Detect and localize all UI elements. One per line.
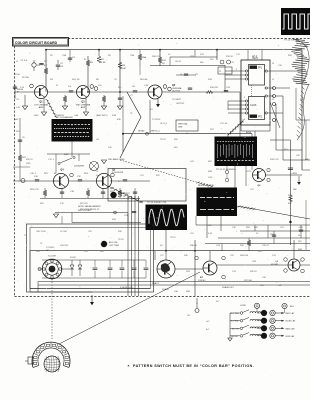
svg-text:PHASE DET: PHASE DET — [222, 286, 235, 289]
svg-text:R-Y 180: R-Y 180 — [231, 313, 240, 315]
svg-text:OSC COIL: OSC COIL — [36, 231, 47, 233]
svg-text:C16 .1: C16 .1 — [30, 173, 37, 175]
svg-text:MAG LAT: MAG LAT — [286, 327, 296, 330]
svg-text:3.58 KEYER: 3.58 KEYER — [112, 172, 124, 174]
svg-text:TP-10: TP-10 — [14, 74, 21, 76]
svg-text:TINT: TINT — [300, 99, 305, 101]
svg-text:R30 1K: R30 1K — [190, 245, 198, 247]
svg-text:FF1: FF1 — [258, 68, 263, 70]
svg-text:R20 1K: R20 1K — [26, 159, 33, 161]
svg-text:AMP: AMP — [39, 106, 44, 109]
svg-text:4.7K: 4.7K — [208, 233, 213, 235]
svg-text:PHASE: PHASE — [162, 288, 169, 291]
svg-text:R3A: R3A — [56, 114, 61, 117]
svg-text:L9 OSC: L9 OSC — [60, 231, 68, 233]
svg-text:AMP TP: AMP TP — [118, 195, 126, 198]
svg-text:R23 4.7K: R23 4.7K — [30, 189, 39, 191]
svg-text:+24V: +24V — [298, 227, 304, 229]
svg-text:LINE: LINE — [178, 127, 183, 129]
svg-text:✶: ✶ — [127, 364, 130, 368]
svg-text:R19 2.7K: R19 2.7K — [270, 159, 279, 161]
svg-text:ADJ 3.58: ADJ 3.58 — [109, 241, 118, 244]
svg-text:Q4 BURST: Q4 BURST — [74, 166, 85, 168]
svg-text:R4 1.2K: R4 1.2K — [72, 79, 80, 81]
svg-text:C17 .05: C17 .05 — [220, 123, 228, 125]
svg-text:R34 10K: R34 10K — [240, 255, 249, 257]
svg-text:COLOR CIRCUIT BOARD: COLOR CIRCUIT BOARD — [15, 41, 58, 45]
svg-text:5.6K: 5.6K — [101, 62, 106, 64]
svg-text:LINE DL-1: LINE DL-1 — [150, 131, 161, 133]
svg-text:(2W): (2W) — [26, 163, 31, 165]
svg-text:TO PIN 8: TO PIN 8 — [152, 119, 161, 121]
svg-text:554-9: 554-9 — [252, 58, 258, 60]
svg-text:(SEE TEXT): (SEE TEXT) — [96, 115, 108, 117]
svg-text:+12V: +12V — [246, 171, 252, 173]
svg-text:TP-12: TP-12 — [160, 139, 167, 141]
svg-text:R9A: R9A — [142, 56, 147, 59]
svg-text:C2A: C2A — [62, 54, 67, 57]
svg-text:TP-12: TP-12 — [226, 149, 232, 151]
svg-text:RED LAT: RED LAT — [286, 312, 296, 315]
svg-text:AGC: AGC — [14, 118, 19, 121]
svg-text:+265V: +265V — [291, 173, 298, 175]
svg-text:GND: GND — [34, 115, 39, 117]
svg-text:C1 5.6: C1 5.6 — [21, 60, 28, 62]
svg-text:R27 470: R27 470 — [80, 203, 88, 205]
svg-text:R16 470: R16 470 — [210, 87, 219, 89]
svg-text:OUTPUT: OUTPUT — [176, 103, 185, 105]
svg-text:BLNK: BLNK — [246, 132, 252, 134]
svg-text:TP-15: TP-15 — [118, 239, 125, 241]
svg-text:C8 .01: C8 .01 — [175, 61, 182, 63]
svg-text:10K: 10K — [122, 68, 126, 70]
svg-text:C5A: C5A — [130, 54, 135, 57]
svg-text:OSC TRIM: OSC TRIM — [109, 245, 119, 247]
svg-text:C7A: C7A — [144, 84, 149, 87]
svg-text:B-Y 90: B-Y 90 — [232, 328, 239, 330]
svg-text:GLSS: GLSS — [250, 104, 257, 107]
svg-text:AMP: AMP — [81, 106, 86, 109]
svg-text:3.58 MC: 3.58 MC — [198, 280, 206, 282]
svg-text:D1 D2: D1 D2 — [70, 257, 77, 259]
svg-text:R10 2.2K: R10 2.2K — [152, 56, 161, 58]
svg-text:BLU: BLU — [290, 306, 294, 308]
svg-text:FF2: FF2 — [258, 117, 263, 119]
svg-text:DELAY: DELAY — [138, 130, 145, 133]
svg-text:BLUE LAT: BLUE LAT — [286, 320, 297, 323]
svg-text:TP-15: TP-15 — [170, 237, 176, 239]
svg-text:REACT: REACT — [152, 282, 160, 285]
svg-text:1.5K: 1.5K — [20, 87, 25, 89]
svg-text:MC: MC — [46, 250, 50, 252]
svg-text:BURST: BURST — [231, 336, 239, 338]
svg-text:OF IC-1: OF IC-1 — [160, 123, 168, 125]
svg-text:R45 1K: R45 1K — [250, 271, 257, 273]
svg-text:TP-13 3.58 MC CW: TP-13 3.58 MC CW — [147, 202, 167, 204]
svg-text:C26 47: C26 47 — [262, 245, 270, 247]
svg-text:C20 120: C20 120 — [60, 245, 69, 247]
svg-text:CONV: CONV — [240, 305, 246, 307]
svg-text:SYNC: SYNC — [152, 225, 158, 227]
svg-text:R37 560: R37 560 — [244, 280, 253, 282]
svg-text:GRN LAT: GRN LAT — [286, 335, 296, 338]
svg-text:TO VERT: TO VERT — [172, 99, 182, 101]
svg-text:T-CLUST: T-CLUST — [48, 256, 57, 258]
svg-text:NOTE: SEE ALIGNMENT: NOTE: SEE ALIGNMENT — [78, 205, 102, 208]
svg-text:R7A: R7A — [112, 114, 117, 117]
svg-text:G-Y 300: G-Y 300 — [231, 321, 240, 323]
svg-text:R8 6.8K: R8 6.8K — [140, 79, 148, 81]
svg-text:C4A: C4A — [74, 114, 79, 117]
svg-text:R15 1K: R15 1K — [226, 56, 234, 58]
svg-text:3.58 MC OSC: 3.58 MC OSC — [120, 287, 133, 289]
svg-text:VERTICAL: VERTICAL — [178, 123, 189, 126]
svg-text:AP-2 BURST: AP-2 BURST — [118, 192, 131, 195]
svg-text:2ND BAND PASS: 2ND BAND PASS — [108, 158, 125, 161]
svg-text:R2 330: R2 330 — [22, 77, 30, 79]
svg-text:REF OSC ADJ: REF OSC ADJ — [78, 209, 91, 212]
svg-text:C15 .1: C15 .1 — [48, 159, 55, 161]
